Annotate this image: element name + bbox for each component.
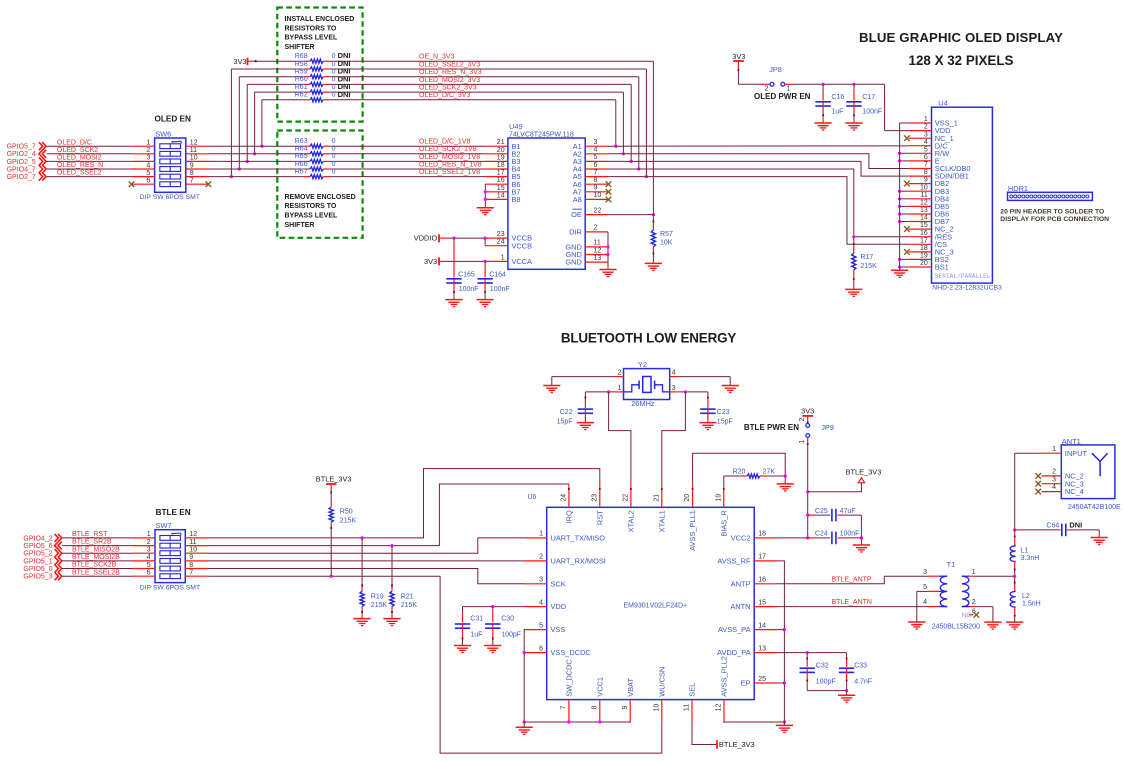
svg-text:4: 4 bbox=[146, 162, 150, 169]
wire OLED_RES_N_3V3 A4 to U4 /RES bbox=[608, 169, 909, 237]
svg-text:R20: R20 bbox=[733, 469, 746, 476]
svg-text:100nF: 100nF bbox=[840, 531, 860, 538]
svg-text:R68: R68 bbox=[295, 53, 308, 60]
junction BTLE_3V3 branch bbox=[806, 490, 809, 493]
switch SW7 pin 5 stub bbox=[132, 568, 155, 570]
wire BTLE_SSEL2B port to SW7 bbox=[62, 575, 132, 577]
svg-text:215K: 215K bbox=[401, 602, 418, 609]
capacitor C25 47uF bbox=[808, 514, 815, 516]
wire VSS_DCDC stub join bbox=[523, 652, 525, 654]
svg-text:JP9: JP9 bbox=[821, 423, 834, 432]
junction U4 pin 6 on ground bus bbox=[898, 159, 901, 162]
junction VDD at C30 bbox=[491, 605, 494, 608]
ic U49 pin 8 A6 bbox=[585, 183, 608, 185]
transformer T1 primary winding bbox=[939, 575, 948, 577]
wire OLED_SSEL2_3V3 A5 to U4 /CS bbox=[608, 177, 909, 245]
svg-text:IRQ: IRQ bbox=[565, 510, 574, 523]
ground R19 bbox=[354, 618, 371, 620]
ic U49 pin 18 B4 bbox=[485, 168, 508, 170]
wire OLED_MOSI2_3V3 down to U49 A-side bbox=[630, 84, 632, 161]
svg-text:VCC2: VCC2 bbox=[731, 534, 751, 543]
svg-text:DISPLAY FOR PCB CONNECTION: DISPLAY FOR PCB CONNECTION bbox=[1000, 216, 1109, 223]
transformer T1 pin 4 lead bbox=[929, 606, 939, 608]
transformer T1 pin 2 lead bbox=[970, 606, 975, 608]
capacitor C31 1uF bbox=[462, 607, 464, 612]
svg-text:0: 0 bbox=[332, 153, 336, 160]
resistor R65 0 ohm bbox=[310, 159, 323, 163]
ic U6 pin 16 ANTP bbox=[754, 583, 777, 585]
capacitor C23 15pF bbox=[707, 392, 709, 398]
switch SW6 pin 12 stub bbox=[186, 145, 209, 147]
junction B8 ground bbox=[484, 198, 487, 201]
svg-text:2: 2 bbox=[972, 599, 976, 606]
connector U4 pin 11 DB4 bbox=[909, 198, 932, 200]
svg-text:0: 0 bbox=[332, 168, 336, 175]
svg-text:27K: 27K bbox=[763, 469, 776, 476]
svg-text:12: 12 bbox=[189, 531, 197, 538]
svg-text:17: 17 bbox=[758, 554, 766, 561]
svg-text:GPIO5_7: GPIO5_7 bbox=[7, 144, 36, 151]
ic U49 pin 2 DIR bbox=[585, 231, 608, 233]
junction OLED_PWR at C17 bbox=[852, 83, 855, 86]
junction /RES at R17 bbox=[852, 235, 855, 238]
svg-text:OLED_SCK2: OLED_SCK2 bbox=[57, 147, 98, 154]
wire OLED_D/C_1V8 from SW6 to resistor bbox=[209, 145, 304, 147]
svg-text:R59: R59 bbox=[295, 69, 308, 76]
svg-text:100pF: 100pF bbox=[816, 679, 836, 686]
svg-text:GND: GND bbox=[565, 258, 581, 267]
wire BTLE_SR2B to IRQ bbox=[209, 484, 569, 546]
svg-text:DIP SW 6POS SMT: DIP SW 6POS SMT bbox=[140, 584, 200, 591]
capacitor C30 100pF bbox=[492, 607, 494, 612]
svg-text:OLED_MOSI2: OLED_MOSI2 bbox=[57, 155, 102, 162]
svg-text:10: 10 bbox=[920, 184, 928, 191]
svg-text:9: 9 bbox=[594, 185, 598, 192]
svg-text:1: 1 bbox=[1052, 446, 1056, 453]
switch SW6 pin 1 stub bbox=[132, 145, 155, 147]
ground Y2 pin 2 bbox=[543, 385, 560, 387]
svg-text:OLED_SSEL2_3V3: OLED_SSEL2_3V3 bbox=[419, 61, 480, 68]
junction U4 pin 14 on ground bus bbox=[898, 220, 901, 223]
svg-text:11: 11 bbox=[921, 192, 928, 199]
junction C25 branch bbox=[806, 514, 809, 517]
wire C24 to ground bbox=[860, 538, 862, 545]
svg-text:C165: C165 bbox=[458, 271, 475, 278]
junction BTLE_SR2B at R21 bbox=[390, 544, 393, 547]
svg-text:3: 3 bbox=[147, 547, 151, 554]
svg-text:VCCA: VCCA bbox=[512, 257, 533, 266]
ic U49 body bbox=[508, 138, 585, 269]
ground T1 pin 5 bbox=[908, 621, 925, 623]
svg-text:9: 9 bbox=[622, 705, 629, 709]
switch SW7 element 2 bbox=[160, 543, 181, 548]
ground L2 bbox=[1006, 621, 1023, 623]
svg-text:NC_4: NC_4 bbox=[1065, 487, 1084, 496]
svg-text:AVSS_PA: AVSS_PA bbox=[718, 625, 751, 634]
switch SW7 element 5 bbox=[160, 566, 181, 571]
switch SW7 element 6 bbox=[160, 574, 181, 579]
junction VDDIO at pin24 branch bbox=[484, 237, 487, 240]
svg-text:RESISTORS TO: RESISTORS TO bbox=[285, 203, 337, 210]
svg-text:BTLE_3V3: BTLE_3V3 bbox=[719, 740, 755, 749]
wire OLED_SSEL2_3V3 down to switch row bbox=[230, 69, 232, 177]
resistor R67 0 ohm bbox=[310, 175, 323, 179]
svg-text:RST: RST bbox=[595, 510, 604, 525]
svg-text:HDR1: HDR1 bbox=[1008, 184, 1028, 193]
svg-text:3: 3 bbox=[594, 139, 598, 146]
svg-text:B8: B8 bbox=[512, 195, 521, 204]
ic U6 pin 21 XTAL1 bbox=[661, 484, 663, 507]
svg-text:1: 1 bbox=[147, 531, 151, 538]
ic U6 pin 19 BIAS_R bbox=[723, 484, 725, 507]
no-connect X U49 A6 bbox=[606, 181, 612, 187]
wire JP8 pin1 to U4 VDD bbox=[785, 83, 793, 85]
svg-text:SEL: SEL bbox=[688, 683, 697, 697]
wire OLED_RES_N_3V3 horizontal bbox=[239, 76, 303, 78]
junction XTAL2 at Y2 pin1 bbox=[607, 390, 610, 393]
ic U6 pin 23 RST bbox=[599, 484, 601, 507]
svg-text:9: 9 bbox=[924, 177, 928, 184]
wire VCCB pin24 jog bbox=[484, 238, 486, 246]
antenna ANT1 symbol bbox=[1092, 453, 1100, 461]
svg-text:7: 7 bbox=[594, 169, 598, 176]
svg-text:GPIO4_2: GPIO4_2 bbox=[23, 535, 52, 542]
svg-text:12: 12 bbox=[190, 140, 198, 147]
svg-text:BYPASS LEVEL: BYPASS LEVEL bbox=[285, 213, 338, 220]
svg-text:18: 18 bbox=[497, 162, 505, 169]
connector U4 pin 7 SCLK/DB0 bbox=[909, 168, 932, 170]
svg-text:GPIO5_3: GPIO5_3 bbox=[23, 574, 52, 581]
svg-text:OLED_SCK2_1V8: OLED_SCK2_1V8 bbox=[419, 146, 477, 153]
svg-text:OLED_D/C_1V8: OLED_D/C_1V8 bbox=[419, 139, 470, 146]
svg-text:5: 5 bbox=[539, 622, 543, 629]
inductor L2 1.5nH bbox=[1014, 576, 1016, 582]
antenna ANT1 pin 3 NC_3 bbox=[1042, 483, 1062, 485]
svg-text:OLED EN: OLED EN bbox=[155, 115, 191, 124]
svg-text:GPIO2_5: GPIO2_5 bbox=[7, 159, 36, 166]
junction OLED_SSEL2_3V3 at switch row bbox=[230, 175, 233, 178]
ic U49 pin 10 A8 bbox=[585, 198, 608, 200]
capacitor C64 DNI bbox=[1015, 529, 1022, 531]
svg-text:C22: C22 bbox=[560, 409, 573, 416]
svg-text:16: 16 bbox=[920, 230, 928, 237]
connector U4 pin 5 R/W bbox=[909, 152, 932, 154]
ground C22 bbox=[577, 422, 594, 424]
wire SEL to BTLE_3V3 bbox=[692, 723, 716, 745]
ic U49 pin 11 GND bbox=[585, 246, 608, 248]
svg-text:7: 7 bbox=[190, 178, 194, 185]
no-connect X U4 pin 18 bbox=[904, 249, 910, 255]
ic U6 pin 25 EP bbox=[754, 682, 777, 684]
junction U4 pin 20 on ground bus bbox=[898, 265, 901, 268]
wire XTAL2 net bbox=[609, 392, 631, 484]
svg-text:OLED_MOSI2_3V3: OLED_MOSI2_3V3 bbox=[419, 77, 480, 84]
ground U49 B-side bbox=[477, 207, 494, 209]
svg-text:47uF: 47uF bbox=[840, 508, 856, 515]
capacitor C22 15pF bbox=[584, 392, 586, 398]
resistor R60 0 ohm DNI bbox=[310, 82, 323, 86]
svg-text:R19: R19 bbox=[371, 593, 384, 600]
svg-text:BYPASS LEVEL: BYPASS LEVEL bbox=[285, 35, 338, 42]
svg-text:UART_RX/MOSI: UART_RX/MOSI bbox=[551, 557, 606, 566]
ground C23 bbox=[699, 422, 716, 424]
svg-text:6: 6 bbox=[146, 178, 150, 185]
svg-text:5: 5 bbox=[147, 562, 151, 569]
resistor R66 0 ohm bbox=[310, 167, 323, 171]
connector U4 pin 9 DB2 bbox=[909, 183, 932, 185]
ic U49 pin 5 A3 bbox=[585, 160, 608, 162]
ic U49 pin 4 A2 bbox=[585, 153, 608, 155]
svg-text:DIP SW 6POS SMT: DIP SW 6POS SMT bbox=[140, 194, 200, 201]
svg-text:VBAT: VBAT bbox=[626, 677, 635, 696]
svg-text:A8: A8 bbox=[573, 195, 582, 204]
wire DIR-GND bus U49 bbox=[607, 232, 609, 262]
svg-text:L2: L2 bbox=[1022, 593, 1030, 600]
wire BTLE_ANTP bbox=[777, 576, 929, 584]
svg-text:3V3: 3V3 bbox=[732, 52, 745, 61]
svg-text:INSTALL ENCLOSED: INSTALL ENCLOSED bbox=[285, 16, 355, 23]
svg-text:13: 13 bbox=[758, 645, 766, 652]
svg-text:BIAS_R: BIAS_R bbox=[719, 510, 728, 536]
switch SW6 pin 9 stub bbox=[186, 168, 209, 170]
svg-text:BTLE_ANTP: BTLE_ANTP bbox=[832, 576, 872, 583]
svg-text:1: 1 bbox=[924, 116, 928, 123]
antenna ANT1 body bbox=[1061, 445, 1115, 499]
svg-text:10: 10 bbox=[653, 704, 660, 712]
wire OLED_D/C_3V3 A1 to U4 D/C bbox=[608, 145, 909, 147]
junction EP bbox=[783, 681, 786, 684]
wire OLED_MOSI2_1V8 resistor to U49 bbox=[330, 160, 486, 162]
switch SW6 actuator bbox=[171, 141, 173, 143]
switch SW6 pin 8 stub bbox=[186, 176, 209, 178]
ic U6 pin 2 UART_RX/MOSI bbox=[524, 560, 547, 562]
wire AVSS_PLL2 to ground bbox=[724, 721, 784, 724]
wire OLED_MOSI2 from port to SW6 bbox=[47, 160, 132, 162]
svg-text:R63: R63 bbox=[295, 138, 308, 145]
switch SW7 pin 6 stub bbox=[132, 575, 155, 577]
svg-text:UART_TX/MISO: UART_TX/MISO bbox=[551, 534, 606, 543]
switch SW6 pin 4 stub bbox=[132, 168, 155, 170]
svg-text:C64: C64 bbox=[1046, 522, 1059, 529]
svg-text:AVSS_PLL1: AVSS_PLL1 bbox=[688, 510, 697, 551]
wire OLED_D/C_1V8 resistor to U49 bbox=[330, 145, 486, 147]
svg-text:BTLE_SCK2B: BTLE_SCK2B bbox=[72, 562, 117, 569]
switch SW6 pin 7 stub bbox=[186, 183, 209, 185]
junction BIAS_R ground bbox=[784, 474, 787, 477]
ic U6 pin 5 VSS bbox=[524, 629, 547, 631]
junction VSS_DCDC bbox=[523, 651, 526, 654]
svg-text:DNI: DNI bbox=[1069, 520, 1082, 529]
capacitor C165 100nF bbox=[453, 238, 455, 244]
switch SW7 actuator bbox=[171, 533, 173, 535]
no-connect X U4 pin 3 bbox=[904, 135, 910, 141]
svg-text:VCCB: VCCB bbox=[512, 241, 533, 250]
ground C64 bbox=[1091, 537, 1108, 539]
switch SW7 element 4 bbox=[160, 559, 181, 564]
wire OLED_D/C_3V3 down to switch row bbox=[261, 100, 263, 146]
svg-text:XTAL2: XTAL2 bbox=[627, 510, 636, 532]
resistor R21 215K pull-down bbox=[391, 546, 393, 585]
transformer T1 pin 3 lead bbox=[929, 575, 939, 577]
wire OLED_D/C from port to SW6 bbox=[47, 145, 132, 147]
svg-text:10: 10 bbox=[190, 155, 198, 162]
resistor R64 0 ohm bbox=[310, 152, 323, 156]
svg-text:0: 0 bbox=[332, 76, 336, 83]
svg-text:20 PIN HEADER TO SOLDER TO: 20 PIN HEADER TO SOLDER TO bbox=[1000, 209, 1104, 216]
svg-text:11: 11 bbox=[684, 704, 691, 711]
ic U6 pin 8 VCC1 bbox=[599, 700, 601, 723]
no-connect X SW6 pin 6 bbox=[129, 181, 135, 187]
svg-text:EM9301V02LF24D+: EM9301V02LF24D+ bbox=[624, 603, 688, 610]
ic U6 pin 6 VSS_DCDC bbox=[524, 652, 547, 654]
switch SW6 pin 6 stub bbox=[132, 183, 155, 185]
junction SW_DCDC bbox=[567, 720, 570, 723]
svg-text:2450AT42B100E: 2450AT42B100E bbox=[1068, 504, 1121, 511]
junction U4 pin 19 on ground bus bbox=[898, 258, 901, 261]
junction OLED_MOSI2_3V3 at A3 row bbox=[630, 160, 633, 163]
svg-text:GPIO5_0: GPIO5_0 bbox=[23, 566, 52, 573]
svg-text:R21: R21 bbox=[401, 593, 414, 600]
svg-text:VCC1: VCC1 bbox=[595, 677, 604, 697]
ground C16 bbox=[815, 122, 832, 124]
svg-text:R61: R61 bbox=[295, 84, 308, 91]
svg-text:2450BL15B200: 2450BL15B200 bbox=[932, 623, 980, 630]
junction OE_N_3V3 at OE row bbox=[652, 213, 655, 216]
wire OLED_SCK2_3V3 down to switch row bbox=[254, 92, 256, 154]
svg-text:OE: OE bbox=[571, 210, 582, 219]
svg-text:0: 0 bbox=[332, 69, 336, 76]
svg-text:21: 21 bbox=[497, 139, 505, 146]
junction U4 pin 10 on ground bus bbox=[898, 190, 901, 193]
ground U4 bbox=[891, 269, 908, 271]
wire OLED_RES_N_3V3 down to switch row bbox=[238, 77, 240, 169]
ic U6 pin 10 WU/CSN bbox=[661, 700, 663, 723]
svg-text:215K: 215K bbox=[340, 517, 357, 524]
wire OLED_SSEL2 from port to SW6 bbox=[47, 176, 132, 178]
svg-text:7: 7 bbox=[561, 705, 568, 709]
svg-text:0: 0 bbox=[332, 53, 336, 60]
svg-text:R65: R65 bbox=[295, 153, 308, 160]
svg-text:GPIO4_7: GPIO4_7 bbox=[7, 166, 36, 173]
svg-text:AVSS_PLL2: AVSS_PLL2 bbox=[720, 656, 729, 697]
resistor R50 215K pull-up bbox=[330, 484, 332, 492]
junction BTLE_SSEL2B at R50 bbox=[330, 575, 333, 578]
svg-text:100nF: 100nF bbox=[459, 286, 479, 293]
ic U49 pin 21 B1 bbox=[485, 145, 508, 147]
svg-text:20: 20 bbox=[497, 147, 505, 154]
crystal Y2 symbol bbox=[624, 385, 640, 392]
svg-text:12: 12 bbox=[594, 247, 602, 254]
svg-text:3: 3 bbox=[1052, 476, 1056, 483]
svg-text:DNI: DNI bbox=[338, 90, 351, 99]
junction T1 pin1 at L1 L2 bbox=[1013, 575, 1016, 578]
wire VDDIO to VCCB bbox=[439, 237, 447, 239]
wire C25 to C24 right bbox=[860, 515, 862, 538]
switch SW7 pin 4 stub bbox=[132, 560, 155, 562]
switch SW6 body bbox=[155, 138, 186, 192]
connector U4 pin 16 /RES bbox=[909, 236, 932, 238]
svg-text:1: 1 bbox=[799, 440, 806, 444]
inductor L1 3.3nH bbox=[1014, 530, 1016, 536]
junction OLED_D/C_3V3 at A1 row bbox=[614, 145, 617, 148]
svg-text:R67: R67 bbox=[295, 168, 308, 175]
ground R21 bbox=[383, 618, 400, 620]
svg-text:18: 18 bbox=[920, 245, 928, 252]
wire U4 ground bus bbox=[899, 123, 901, 270]
svg-text:17: 17 bbox=[920, 237, 928, 244]
wire BTLE_SCK2B port to SW7 bbox=[62, 568, 132, 570]
svg-text:1uF: 1uF bbox=[470, 632, 482, 639]
svg-text:BTLE_3V3: BTLE_3V3 bbox=[316, 474, 352, 483]
svg-text:3V3: 3V3 bbox=[233, 57, 246, 66]
svg-text:BLUE GRAPHIC OLED DISPLAY: BLUE GRAPHIC OLED DISPLAY bbox=[859, 30, 1063, 45]
svg-text:10: 10 bbox=[189, 547, 197, 554]
svg-text:C24: C24 bbox=[815, 531, 828, 538]
svg-text:2: 2 bbox=[924, 124, 928, 131]
ic U49 pin 9 A7 bbox=[585, 191, 608, 193]
svg-text:SW_DCDC: SW_DCDC bbox=[565, 659, 574, 697]
switch SW7 pin 9 stub bbox=[185, 560, 208, 562]
junction B7 ground bbox=[484, 190, 487, 193]
svg-text:GPIO2_4: GPIO2_4 bbox=[7, 151, 36, 158]
svg-text:1: 1 bbox=[618, 385, 622, 392]
switch SW6 element 5 bbox=[160, 174, 181, 179]
junction 3V3 at C164 bbox=[484, 260, 487, 263]
svg-text:11: 11 bbox=[189, 539, 196, 546]
junction OLED_PWR at C16 bbox=[822, 83, 825, 86]
svg-text:8: 8 bbox=[924, 169, 928, 176]
wire BTLE_RST to RST bbox=[209, 469, 600, 538]
junction C24 branch bbox=[806, 536, 809, 539]
svg-text:6: 6 bbox=[539, 645, 543, 652]
ic U6 pin 4 VDD bbox=[524, 606, 547, 608]
junction XTAL1 at Y2 pin3 bbox=[684, 390, 687, 393]
svg-text:15: 15 bbox=[758, 599, 766, 606]
switch SW6 element 6 bbox=[160, 182, 181, 187]
wire bottom ground rail bbox=[524, 721, 630, 723]
wire BTLE_SSEL2B to WU/CSN bbox=[209, 576, 662, 753]
svg-text:0: 0 bbox=[332, 138, 336, 145]
svg-text:SHIFTER: SHIFTER bbox=[285, 222, 315, 229]
svg-text:8: 8 bbox=[591, 705, 598, 709]
no-connect X U4 pin 15 bbox=[904, 226, 910, 232]
svg-text:BTLE_MISO2B: BTLE_MISO2B bbox=[72, 546, 120, 553]
svg-text:OLED_RES_N_3V3: OLED_RES_N_3V3 bbox=[419, 69, 482, 76]
svg-text:AVDD_PA: AVDD_PA bbox=[717, 648, 750, 657]
switch SW7 pin 10 stub bbox=[185, 552, 208, 554]
svg-text:128 X 32 PIXELS: 128 X 32 PIXELS bbox=[909, 53, 1014, 68]
wire U49 B6-B8 ground bus bbox=[484, 183, 486, 185]
connector U4 pin 20 BS1 bbox=[909, 266, 932, 268]
svg-text:BTLE_ANTN: BTLE_ANTN bbox=[832, 599, 872, 606]
connector U4 pin 13 DB6 bbox=[909, 213, 932, 215]
svg-text:20: 20 bbox=[920, 260, 928, 267]
svg-text:100nF: 100nF bbox=[490, 286, 510, 293]
ground C165 bbox=[445, 299, 462, 301]
svg-text:2: 2 bbox=[1052, 469, 1056, 476]
svg-text:100pF: 100pF bbox=[501, 632, 521, 639]
wire AVSS_PLL1 loop bbox=[693, 453, 786, 484]
ic U49 pin 1 VCCA bbox=[485, 260, 508, 262]
wire OLED_MOSI2_3V3 A3 to U4 SDIN/DB1 bbox=[608, 161, 909, 176]
svg-text:OLED_SSEL2_1V8: OLED_SSEL2_1V8 bbox=[419, 169, 480, 176]
junction OLED_SSEL2_3V3 at A5 row bbox=[645, 175, 648, 178]
svg-text:2: 2 bbox=[146, 147, 150, 154]
svg-text:SERIAL/PARALLEL: SERIAL/PARALLEL bbox=[935, 273, 991, 280]
svg-text:23: 23 bbox=[497, 231, 505, 238]
svg-text:3: 3 bbox=[924, 131, 928, 138]
svg-text:ANTN: ANTN bbox=[730, 602, 750, 611]
